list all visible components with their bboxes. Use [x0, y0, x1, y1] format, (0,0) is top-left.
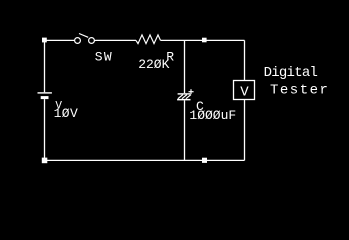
svg-text:Tester: Tester [270, 82, 329, 98]
capacitor C [177, 89, 194, 100]
wire capacitor branch lower [184, 100, 186, 160]
wire right vertical upper [244, 40, 246, 80]
battery V [38, 92, 52, 99]
svg-text:22ØK: 22ØK [138, 57, 169, 72]
wire left vertical upper [44, 40, 46, 92]
node bottom junction [202, 158, 207, 163]
svg-text:1ØØØuF: 1ØØØuF [189, 108, 236, 123]
node top-left junction [42, 38, 47, 43]
wire resistor-to-top-right-corner [161, 39, 245, 41]
svg-text:V: V [240, 84, 249, 100]
wire top-left segment [45, 39, 75, 41]
switch SW [75, 34, 95, 44]
node top junction [202, 38, 207, 43]
wire capacitor branch upper [184, 40, 186, 93]
resistor R [136, 35, 161, 44]
node bottom-left junction [42, 158, 48, 164]
wire switch-to-resistor [94, 39, 136, 41]
wire bottom [45, 159, 245, 161]
wire right vertical lower [244, 100, 246, 161]
wire left vertical lower [44, 99, 46, 160]
svg-text:Digital: Digital [264, 65, 318, 81]
voltmeter U1 [234, 81, 255, 101]
svg-text:SW: SW [95, 49, 113, 64]
svg-text:1ØV: 1ØV [54, 106, 79, 121]
